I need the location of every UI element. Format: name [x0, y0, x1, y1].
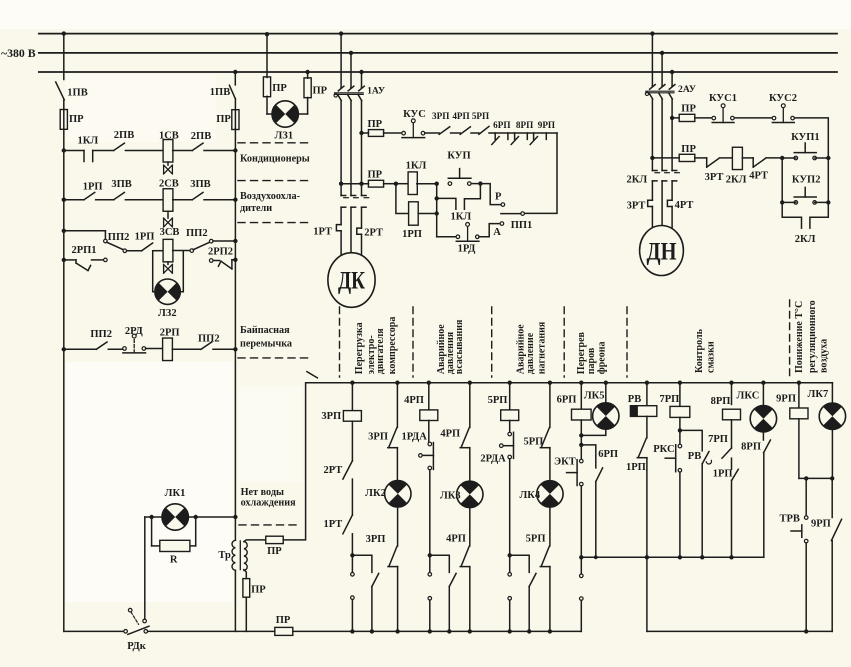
- label 4RP: [446, 534, 466, 545]
- wire secondary top: [244, 540, 266, 542]
- wire LKS down: [763, 453, 765, 558]
- svg-text:КУС1: КУС1: [709, 93, 737, 104]
- label KUS: [403, 109, 426, 120]
- wire phase A2: [340, 101, 342, 196]
- node on bottom bus: [548, 629, 552, 633]
- fuse PR left rail: [60, 110, 67, 130]
- wire RV contact down: [701, 464, 703, 558]
- svg-text:ПР: ПР: [267, 546, 282, 557]
- label 3RP: [321, 411, 341, 422]
- label 5RP: [526, 534, 546, 545]
- contact 8RP: [511, 133, 527, 145]
- node: [478, 181, 482, 185]
- node L1 tap right: [650, 31, 654, 35]
- svg-text:А: А: [493, 227, 501, 238]
- svg-text:давление: давление: [525, 332, 536, 374]
- label A pos: [493, 227, 501, 238]
- contact 4RP: [460, 127, 470, 135]
- relay coil 1RP: [409, 202, 419, 225]
- lamp LZ1: [272, 101, 298, 127]
- wire right rail top: [234, 72, 236, 85]
- label 2RP: [160, 328, 180, 339]
- lamp LK2: [385, 481, 411, 507]
- svg-text:ЛК2: ЛК2: [365, 488, 386, 499]
- label PR: [276, 615, 291, 626]
- node junction C: [508, 553, 512, 557]
- time relay coil RV: [630, 406, 656, 417]
- label 3RP: [368, 431, 388, 442]
- label 1RP: [83, 182, 103, 193]
- terminal: [209, 259, 213, 263]
- label 3PV: [111, 179, 131, 190]
- node: [435, 211, 439, 215]
- node NR: [826, 156, 830, 160]
- label Conditioners: [240, 154, 310, 165]
- label 8RP: [741, 442, 761, 453]
- svg-text:ПР: ПР: [69, 114, 84, 125]
- wire 6RP parallel down: [595, 482, 597, 558]
- svg-text:всасывания: всасывания: [454, 319, 465, 374]
- wire to bus: [509, 600, 511, 631]
- resistor R: [160, 540, 190, 551]
- wire link row: [799, 477, 832, 479]
- wire power bus L2: [39, 52, 837, 54]
- wire LK5 branch: [605, 383, 607, 403]
- switch PP2: [96, 342, 107, 349]
- terminal: [428, 597, 432, 601]
- separator dash: [239, 524, 296, 526]
- svg-text:5РП: 5РП: [526, 534, 546, 545]
- wire phase C4: [361, 234, 363, 255]
- label 1RP: [626, 462, 646, 473]
- wire: [762, 432, 764, 440]
- node row4 left: [62, 347, 66, 351]
- label LK2: [365, 488, 386, 499]
- contact 1RP row3: [142, 243, 153, 251]
- terminal: [209, 239, 213, 243]
- terminal: [351, 573, 355, 577]
- svg-text:ЛК3: ЛК3: [440, 490, 461, 501]
- node row2 left: [62, 198, 66, 202]
- contact 2RP2: [213, 260, 235, 269]
- relay coil 8RP: [723, 409, 741, 420]
- solenoid coil 1SV: [163, 140, 173, 163]
- svg-text:2РДА: 2РДА: [480, 454, 506, 465]
- node on L1: [265, 32, 269, 36]
- node: [826, 200, 830, 204]
- label 2KL: [627, 175, 648, 186]
- breaker 2AU: [645, 85, 675, 99]
- contact 1RP row2: [84, 192, 95, 199]
- transformer core: [239, 541, 241, 570]
- switch at bus start: [307, 372, 318, 378]
- svg-text:9РП: 9РП: [776, 393, 796, 404]
- node: [780, 200, 784, 204]
- label LZ2: [158, 308, 177, 319]
- label 2RDA: [480, 454, 506, 465]
- switch PP2 right: [201, 342, 212, 349]
- label 7RP: [708, 434, 728, 445]
- node: [678, 428, 682, 432]
- label 2PV: [191, 131, 211, 142]
- wire: [580, 420, 582, 459]
- contactor coil 2KL: [732, 147, 742, 169]
- svg-text:регуляционного: регуляционного: [807, 300, 818, 373]
- svg-text:5РП: 5РП: [523, 436, 543, 447]
- svg-text:Байпасная: Байпасная: [240, 325, 290, 336]
- terminal: [428, 573, 432, 577]
- pushbutton RKS: [665, 444, 682, 472]
- node: [804, 476, 808, 480]
- svg-text:фреона: фреона: [596, 342, 607, 375]
- wire row2 d: [173, 199, 193, 201]
- svg-text:ПР: ПР: [272, 83, 287, 94]
- label 1SV: [159, 131, 179, 142]
- node row3 right: [233, 239, 237, 243]
- svg-text:3РТ: 3РТ: [627, 200, 646, 211]
- label 1RT: [324, 519, 343, 530]
- label 2PV: [114, 130, 134, 141]
- label RKS: [653, 444, 674, 455]
- wire fuse to KUS: [384, 132, 402, 134]
- label 2KL: [726, 174, 747, 185]
- wire bottom bus far right: [647, 630, 832, 632]
- wire to bus: [549, 567, 551, 632]
- valve V1: [164, 162, 173, 174]
- contact 1KL main A: [341, 196, 348, 208]
- fuse PR lamp LZ1 right: [304, 78, 311, 98]
- wire power bus L1: [39, 33, 837, 35]
- node sub-bus: [579, 555, 583, 559]
- caption discharge pressure: [516, 321, 548, 374]
- svg-text:ПР: ПР: [368, 119, 383, 130]
- contact 6RP parallel: [596, 468, 603, 482]
- wire: [451, 132, 461, 134]
- fuse PR right rail: [232, 110, 239, 130]
- contact parallel A: [372, 573, 379, 586]
- wire into fuse: [63, 100, 65, 129]
- wire 9RP branch: [798, 383, 800, 408]
- wire 1RD row: [437, 236, 457, 238]
- label KUS2: [769, 93, 797, 104]
- wire: [805, 543, 807, 632]
- svg-text:1РТ: 1РТ: [324, 519, 343, 530]
- wire R loop left: [152, 517, 160, 546]
- svg-text:3РП: 3РП: [368, 431, 388, 442]
- svg-text:1РП: 1РП: [402, 229, 422, 240]
- contact 1RT: [343, 515, 353, 534]
- thermal element 3RT: [648, 200, 653, 206]
- svg-text:R: R: [170, 555, 178, 566]
- svg-text:воздуха: воздуха: [819, 339, 830, 373]
- svg-text:двигателя: двигателя: [375, 328, 386, 374]
- pushbutton KUP2: [794, 187, 816, 204]
- svg-text:1КЛ: 1КЛ: [451, 212, 472, 223]
- label RV: [628, 394, 641, 405]
- terminal: [104, 258, 108, 262]
- wire row2 e: [204, 199, 235, 201]
- label 2SV: [159, 178, 179, 189]
- wire to fuse: [672, 117, 679, 119]
- wire: [549, 507, 551, 546]
- wire phase B3: [350, 207, 352, 253]
- label 2RT: [364, 228, 383, 239]
- label PR: [368, 170, 383, 181]
- svg-text:ТРВ: ТРВ: [779, 513, 799, 524]
- svg-text:перемычка: перемычка: [240, 338, 292, 349]
- svg-text:5РП: 5РП: [472, 111, 489, 121]
- label 4RP: [404, 395, 424, 406]
- relay coil 9RP: [790, 408, 808, 419]
- wire row1 a: [64, 150, 84, 152]
- svg-text:РДк: РДк: [127, 641, 147, 652]
- label PR: [69, 114, 84, 125]
- label LK1: [165, 488, 186, 499]
- label LK5: [584, 391, 605, 402]
- switch PP2 right blade: [193, 242, 210, 250]
- svg-text:2РТ: 2РТ: [324, 465, 343, 476]
- wire LK2 branch: [396, 383, 398, 428]
- svg-text:ПР: ПР: [313, 86, 328, 97]
- svg-text:Воздухоохла-: Воздухоохла-: [240, 191, 301, 202]
- svg-text:5РП: 5РП: [488, 395, 508, 406]
- wire phase E3: [661, 181, 663, 226]
- wire chain top: [489, 132, 557, 134]
- svg-text:ЛЗ2: ЛЗ2: [158, 308, 177, 319]
- wire secondary bottom: [244, 570, 246, 579]
- contact 7RP: [722, 448, 732, 458]
- svg-text:1РДА: 1РДА: [402, 431, 428, 442]
- node on sub-bus: [594, 555, 598, 559]
- wire to 1KL coil: [396, 183, 409, 185]
- label RDk: [127, 641, 147, 652]
- label R pos: [495, 191, 502, 202]
- wire KUP2 right: [815, 201, 829, 203]
- svg-text:1РП: 1РП: [713, 468, 733, 479]
- terminal: [190, 249, 194, 253]
- svg-text:Нет воды: Нет воды: [241, 487, 284, 498]
- label 6RP: [598, 449, 618, 460]
- wire row3 a: [64, 231, 106, 240]
- svg-text:2РП2: 2РП2: [208, 246, 233, 257]
- svg-text:2КЛ: 2КЛ: [726, 174, 747, 185]
- label PR: [313, 86, 328, 97]
- label No cooling water: [241, 487, 297, 509]
- node on sub-bus: [700, 555, 704, 559]
- terminal: [508, 597, 512, 601]
- relay coil 6RP: [572, 409, 592, 420]
- pressure button 1RD: [456, 223, 479, 242]
- thermo contact TRV: [791, 516, 808, 543]
- wire: [351, 534, 353, 575]
- wire to R terminal: [480, 184, 501, 205]
- pushbutton EKT: [567, 459, 584, 486]
- label 2RD: [125, 326, 144, 337]
- node on bottom bus: [804, 629, 808, 633]
- contact 3RP lamp lower: [388, 546, 398, 566]
- wire: [428, 421, 430, 443]
- node: [435, 182, 439, 186]
- contact 2KL main D: [652, 171, 659, 181]
- svg-text:1РП: 1РП: [135, 232, 155, 243]
- svg-text:6РП: 6РП: [493, 120, 510, 130]
- node row1 right: [233, 148, 237, 152]
- separator dash v4: [563, 307, 565, 377]
- relay coil 3RP: [343, 411, 361, 422]
- svg-text:РВ: РВ: [688, 451, 701, 462]
- terminal A: [500, 222, 504, 226]
- node on L3 right rail: [233, 70, 237, 74]
- node row3 left: [62, 229, 66, 233]
- lamp LK7: [819, 403, 845, 429]
- node bus LK3: [468, 381, 472, 385]
- label 1PV: [210, 87, 230, 98]
- label 9RP: [776, 393, 796, 404]
- thermal element 4RT: [667, 200, 672, 206]
- label 6RP: [557, 395, 577, 406]
- wire 3RP branch: [351, 383, 353, 411]
- wire: [351, 479, 353, 515]
- lamp LK4: [537, 481, 563, 507]
- svg-text:ПР: ПР: [251, 585, 266, 596]
- wire NL to KUP1: [782, 157, 796, 159]
- wire fuse to lamp: [267, 96, 272, 114]
- svg-text:3ПВ: 3ПВ: [190, 179, 210, 190]
- svg-text:4РП: 4РП: [404, 395, 424, 406]
- node on bottom bus: [447, 629, 451, 633]
- wire LK1 left: [145, 516, 162, 518]
- wire LK4 branch: [549, 383, 551, 428]
- svg-text:2РП1: 2РП1: [71, 245, 96, 256]
- contact parallel B: [449, 573, 456, 586]
- label 4RT: [749, 171, 768, 182]
- caption suction pressure: [436, 319, 465, 374]
- terminal: [508, 573, 512, 577]
- wire 4RP branch: [428, 383, 430, 410]
- label 3RT: [627, 200, 646, 211]
- svg-text:2ПВ: 2ПВ: [191, 131, 211, 142]
- label PR: [681, 104, 696, 115]
- wire row2 b: [96, 199, 114, 201]
- contact 2RT: [343, 461, 353, 479]
- node on bottom bus: [350, 629, 354, 633]
- wire 1RP branch down: [396, 184, 409, 214]
- pressure switch RDk: [124, 608, 149, 634]
- svg-text:3РТ: 3РТ: [705, 172, 724, 183]
- wire left rail top: [63, 34, 65, 80]
- label LKS: [737, 390, 760, 401]
- wire: [580, 486, 582, 576]
- selector PP1: [501, 212, 524, 216]
- svg-text:ПР: ПР: [681, 104, 696, 115]
- svg-text:ЛК7: ЛК7: [808, 389, 829, 400]
- svg-text:2СВ: 2СВ: [159, 178, 179, 189]
- pressure switch 2RD: [123, 334, 146, 353]
- wire RV contact branch: [680, 430, 702, 451]
- pressure contact 1RDA: [419, 442, 434, 470]
- svg-text:1ПВ: 1ПВ: [67, 87, 87, 98]
- svg-text:1РП: 1РП: [626, 462, 646, 473]
- wire: [679, 417, 681, 444]
- wire 1RD to A: [479, 224, 500, 237]
- svg-text:6РП: 6РП: [557, 395, 577, 406]
- wire to bus: [580, 600, 582, 631]
- label 7RP: [659, 394, 679, 405]
- wire: [646, 416, 648, 438]
- wire 9RP parallel: [831, 478, 833, 517]
- label 1RP: [135, 232, 155, 243]
- node bus 8RP: [729, 381, 733, 385]
- node bus LK4: [548, 381, 552, 385]
- contact 1RP: [637, 438, 647, 457]
- wire left rail: [63, 129, 65, 631]
- relay coil 2RP: [163, 338, 173, 361]
- solenoid coil 2SV: [163, 189, 173, 212]
- label 5RP: [488, 395, 508, 406]
- svg-text:КУС2: КУС2: [769, 93, 797, 104]
- svg-text:2РП: 2РП: [160, 328, 180, 339]
- terminal: [580, 597, 584, 601]
- fuse PR secondary bottom: [243, 579, 250, 598]
- wire row3 e: [213, 240, 235, 242]
- svg-text:3РП: 3РП: [321, 411, 341, 422]
- svg-text:ПП2: ПП2: [90, 329, 112, 340]
- label 2KL: [795, 234, 816, 245]
- label PR: [216, 114, 231, 125]
- label 1RT: [313, 227, 332, 238]
- label 8RP: [711, 396, 731, 407]
- node L2 tap: [349, 51, 353, 55]
- wire phase D4: [651, 207, 653, 229]
- label PR: [267, 546, 282, 557]
- wire row3 c: [154, 250, 164, 252]
- label 1RD: [458, 244, 477, 255]
- svg-text:КУП1: КУП1: [791, 132, 820, 143]
- wire 1RP to node: [418, 213, 437, 215]
- label PR: [681, 144, 696, 155]
- label 1RP: [713, 468, 733, 479]
- svg-text:~380 В: ~380 В: [1, 46, 36, 60]
- node ctrl tap C: [359, 182, 363, 186]
- switch 1PV left: [56, 82, 65, 100]
- wire coil to node: [417, 183, 437, 185]
- wire row4 c: [146, 348, 163, 350]
- lamp LK1: [162, 504, 188, 530]
- label 1KL: [406, 161, 427, 172]
- wire power bus L3: [39, 71, 837, 73]
- relay coil 7RP: [670, 406, 690, 417]
- transformer Tr primary: [232, 540, 235, 570]
- wire: [719, 157, 732, 159]
- relay coil 5RP: [501, 410, 519, 421]
- node bus RV: [645, 381, 649, 385]
- wire: [798, 419, 800, 479]
- contact 3RP lamp: [388, 428, 398, 448]
- svg-text:1СВ: 1СВ: [159, 131, 179, 142]
- wire: [695, 117, 712, 119]
- node on bottom bus: [395, 629, 399, 633]
- label EKT: [554, 457, 576, 468]
- lamp LKS: [750, 406, 776, 432]
- contact parallel C: [529, 573, 536, 586]
- caption air temp drop: [794, 300, 829, 373]
- node: [394, 182, 398, 186]
- svg-text:4РТ: 4РТ: [749, 171, 768, 182]
- contact 3RP: [439, 127, 450, 135]
- wire KUP1 to NR: [815, 157, 829, 159]
- svg-text:1РП: 1РП: [83, 182, 103, 193]
- svg-text:РВ: РВ: [628, 394, 641, 405]
